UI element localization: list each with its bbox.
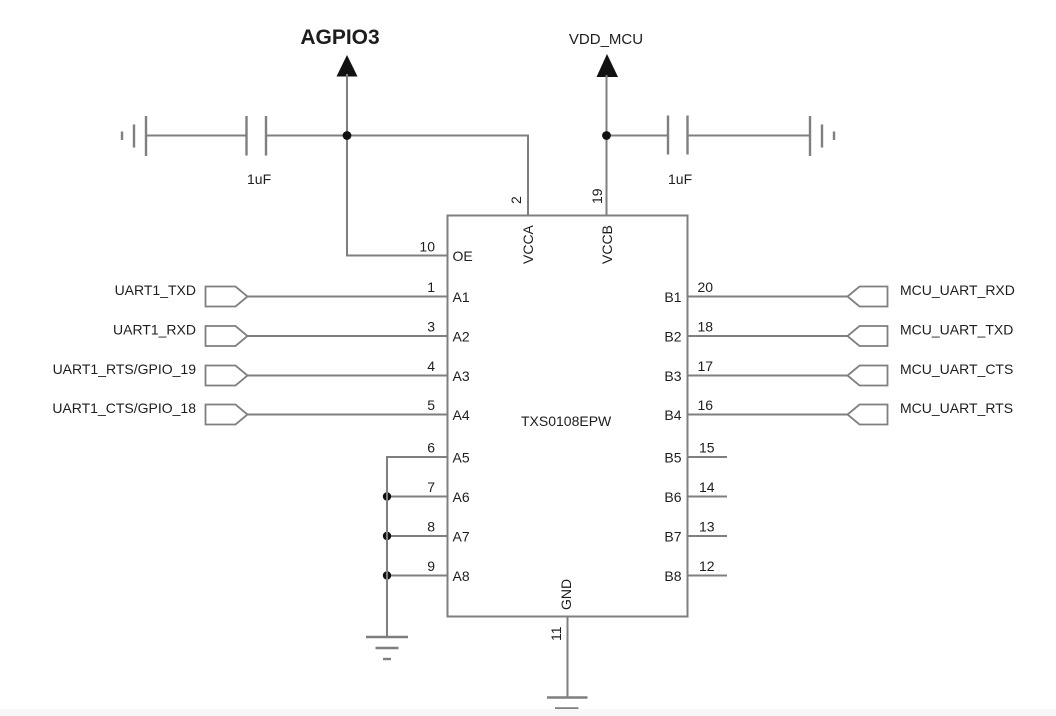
wire B4 to tag <box>687 414 848 416</box>
svg-text:UART1_RTS/GPIO_19: UART1_RTS/GPIO_19 <box>53 361 197 377</box>
svg-text:MCU_UART_CTS: MCU_UART_CTS <box>900 361 1013 377</box>
svg-text:A4: A4 <box>453 407 470 423</box>
wire B6 stub <box>687 496 727 498</box>
net tag UART1_RXD <box>113 322 448 347</box>
svg-text:17: 17 <box>698 358 714 374</box>
svg-text:A3: A3 <box>453 368 470 384</box>
wire VDD junction to right capacitor <box>607 135 669 137</box>
svg-text:AGPIO3: AGPIO3 <box>300 26 379 49</box>
svg-text:19: 19 <box>589 188 605 204</box>
wire A5 stub <box>387 456 448 458</box>
svg-text:A2: A2 <box>453 329 470 345</box>
power flag AGPIO3 arrow <box>337 55 358 77</box>
svg-text:B2: B2 <box>664 329 681 345</box>
net tag MCU_UART_CTS <box>848 361 1014 386</box>
svg-text:18: 18 <box>698 319 714 335</box>
wire B5 stub <box>687 456 727 458</box>
junction node VDD_MCU <box>602 131 611 140</box>
svg-text:TXS0108EPW: TXS0108EPW <box>521 413 612 429</box>
ground (left, rotated) <box>122 116 146 156</box>
svg-text:VCCB: VCCB <box>599 225 615 264</box>
svg-text:14: 14 <box>699 479 715 495</box>
svg-text:GND: GND <box>558 579 574 610</box>
svg-text:1uF: 1uF <box>668 171 692 187</box>
svg-text:B3: B3 <box>664 368 681 384</box>
wire B1 to tag <box>687 296 848 298</box>
net tag MCU_UART_TXD <box>848 322 1014 347</box>
wire A6 stub <box>387 496 448 498</box>
svg-text:11: 11 <box>548 626 564 641</box>
svg-text:B5: B5 <box>664 450 681 466</box>
wire A8 stub <box>387 575 448 577</box>
wire junction down to OE bend <box>346 136 348 256</box>
wire B3 to tag <box>687 375 848 377</box>
junction node A7 <box>383 532 391 540</box>
junction node AGPIO3 <box>343 131 352 140</box>
svg-text:5: 5 <box>427 397 435 413</box>
junction node A6 <box>383 492 391 500</box>
wire B2 to tag <box>687 335 848 337</box>
svg-text:A7: A7 <box>453 529 470 545</box>
svg-text:9: 9 <box>427 558 435 574</box>
wire A5-A8 ground bus vertical <box>386 456 388 637</box>
svg-text:UART1_CTS/GPIO_18: UART1_CTS/GPIO_18 <box>52 400 196 416</box>
net tag UART1_CTS/GPIO_18 <box>52 400 448 425</box>
svg-text:B7: B7 <box>664 529 681 545</box>
svg-text:B6: B6 <box>664 489 681 505</box>
svg-text:B4: B4 <box>664 407 681 423</box>
svg-text:3: 3 <box>427 319 435 335</box>
svg-text:20: 20 <box>698 279 714 295</box>
svg-text:B1: B1 <box>664 289 681 305</box>
svg-text:MCU_UART_TXD: MCU_UART_TXD <box>900 322 1013 338</box>
svg-text:4: 4 <box>427 358 435 374</box>
svg-text:7: 7 <box>427 479 435 495</box>
wire left ground to capacitor <box>146 135 246 137</box>
net tag UART1_RTS/GPIO_19 <box>53 361 448 386</box>
svg-text:2: 2 <box>508 196 524 204</box>
wire junction to VCCA bend <box>347 135 528 137</box>
svg-text:OE: OE <box>453 248 473 264</box>
ground (bottom, GND pin) <box>547 698 588 709</box>
wire right capacitor to right ground <box>688 135 811 137</box>
capacitor 1uF (left) plates <box>247 116 267 156</box>
wire A7 stub <box>387 535 448 537</box>
wire AGPIO3 arrow stem <box>346 74 348 136</box>
capacitor 1uF (right) plates <box>668 116 688 155</box>
ground (right, rotated) <box>810 116 834 156</box>
svg-text:VDD_MCU: VDD_MCU <box>569 31 643 48</box>
net tag MCU_UART_RXD <box>848 282 1015 307</box>
svg-text:A5: A5 <box>453 450 470 466</box>
svg-text:15: 15 <box>699 440 715 456</box>
wire OE horizontal into pin 10 <box>346 255 448 257</box>
svg-text:8: 8 <box>427 519 435 535</box>
wire GND pin 11 stem <box>567 616 569 697</box>
IC U1 TXS0108EPW body <box>448 216 688 617</box>
svg-text:13: 13 <box>699 519 715 535</box>
svg-text:VCCA: VCCA <box>520 224 536 264</box>
svg-text:6: 6 <box>427 440 435 456</box>
svg-text:10: 10 <box>419 239 435 255</box>
svg-text:A8: A8 <box>453 568 470 584</box>
svg-text:A6: A6 <box>453 489 470 505</box>
net tag UART1_TXD <box>115 282 448 307</box>
svg-text:1: 1 <box>427 279 435 295</box>
svg-text:MCU_UART_RTS: MCU_UART_RTS <box>900 400 1013 416</box>
svg-text:16: 16 <box>698 397 714 413</box>
svg-text:MCU_UART_RXD: MCU_UART_RXD <box>900 282 1015 298</box>
junction node A8 <box>383 571 391 579</box>
wire B7 stub <box>687 535 727 537</box>
net tag MCU_UART_RTS <box>848 400 1014 425</box>
wire B8 stub <box>687 575 727 577</box>
svg-text:UART1_RXD: UART1_RXD <box>113 322 196 338</box>
svg-text:A1: A1 <box>453 289 470 305</box>
power flag VDD_MCU arrow <box>597 54 619 77</box>
wire VDD_MCU arrow stem to VCCB pin <box>606 75 608 216</box>
wire left capacitor to junction <box>266 135 347 137</box>
svg-text:B8: B8 <box>664 568 681 584</box>
svg-text:1uF: 1uF <box>247 171 271 187</box>
ground (A5-A8 bus) <box>366 637 408 659</box>
wire VCCA vertical drop to pin 2 <box>527 135 529 217</box>
svg-text:12: 12 <box>699 558 715 574</box>
svg-text:UART1_TXD: UART1_TXD <box>115 282 196 298</box>
